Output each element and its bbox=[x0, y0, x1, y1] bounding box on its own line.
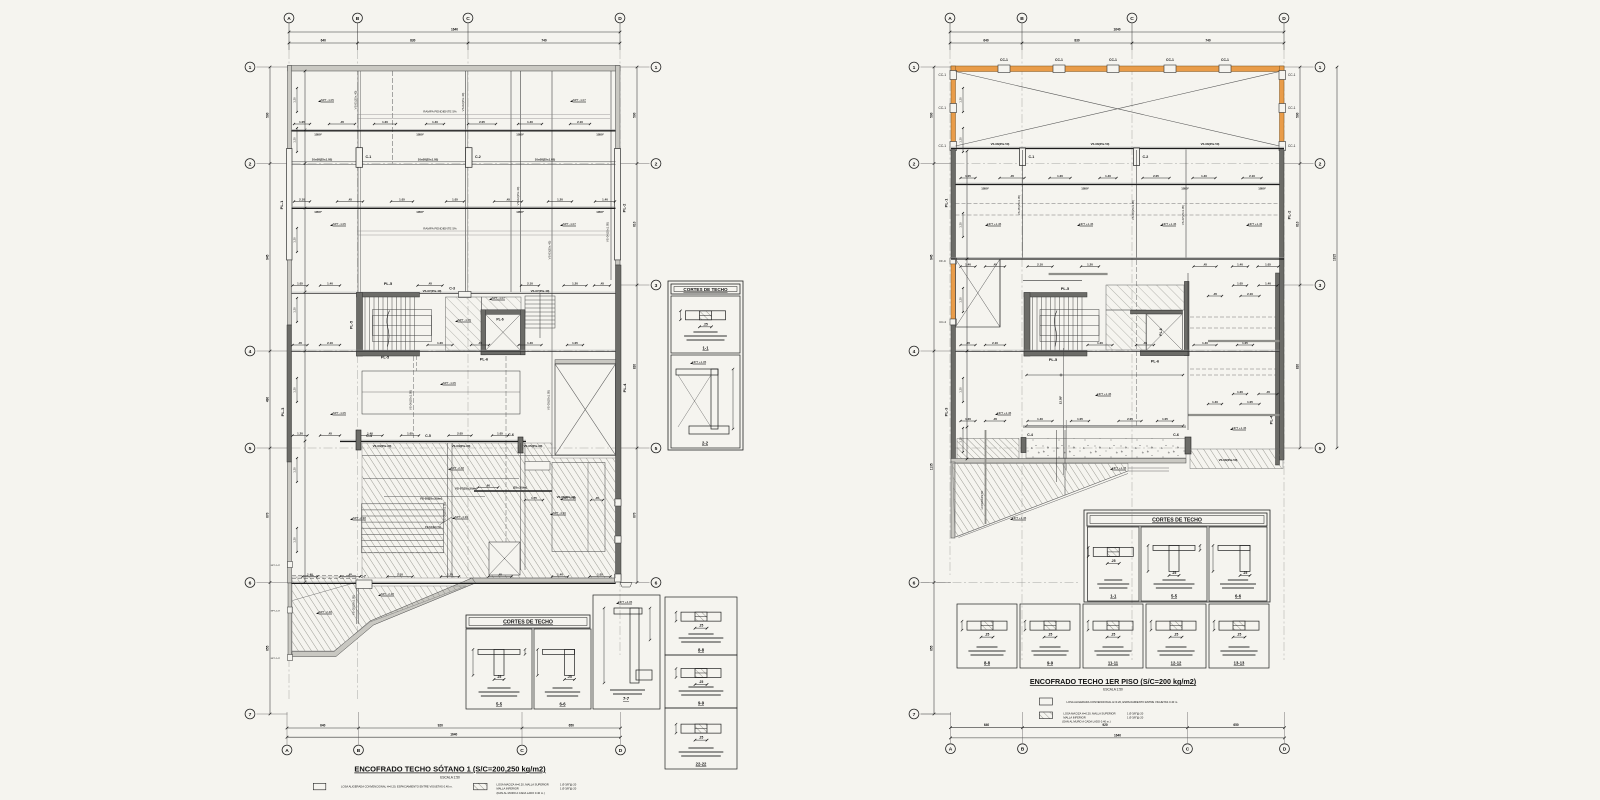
svg-text:.25: .25 bbox=[1172, 571, 1177, 575]
dim cluster row A bbox=[374, 123, 396, 125]
svg-text:PL-5: PL-5 bbox=[1061, 287, 1069, 291]
svg-text:1050*: 1050* bbox=[596, 133, 604, 137]
detail box 9-9 (right) bbox=[1020, 604, 1080, 668]
svg-text:1.20: 1.20 bbox=[959, 437, 963, 443]
svg-text:2.10: 2.10 bbox=[1247, 292, 1253, 296]
hatch verticals bbox=[447, 443, 449, 578]
svg-text:.25: .25 bbox=[699, 680, 704, 684]
svg-text:6: 6 bbox=[249, 580, 252, 586]
svg-text:PL-4: PL-4 bbox=[1269, 415, 1274, 424]
grid circle B (right plan) bbox=[1017, 13, 1027, 23]
dim cluster row A bbox=[294, 123, 310, 125]
svg-text:NPT +1.45: NPT +1.45 bbox=[997, 411, 1011, 415]
white box on hatch bbox=[525, 462, 550, 471]
svg-text:.25: .25 bbox=[703, 322, 708, 326]
dim cluster row3 bbox=[320, 285, 340, 287]
bottom stems (right plan) bbox=[950, 712, 952, 743]
interior beam vertical bbox=[610, 71, 612, 280]
elevator shaft gray top bbox=[555, 360, 616, 364]
NPT level mark bbox=[330, 413, 333, 415]
svg-text:PL-5: PL-5 bbox=[1049, 358, 1057, 362]
svg-text:C: C bbox=[466, 16, 470, 22]
gray vertical band (right plan) bbox=[985, 430, 987, 524]
segment dim top (left plan) bbox=[289, 42, 620, 44]
dim cluster rowC4 bbox=[492, 435, 508, 437]
svg-text:1.20: 1.20 bbox=[557, 197, 563, 201]
svg-text:CC-1: CC-1 bbox=[939, 144, 947, 148]
svg-text:1.05: 1.05 bbox=[297, 281, 303, 285]
left dim stems bbox=[921, 66, 952, 68]
svg-text:.45: .45 bbox=[348, 572, 352, 576]
right wall PL-2 outline bbox=[615, 149, 621, 261]
svg-text:8-8: 8-8 bbox=[698, 648, 705, 653]
svg-text:5: 5 bbox=[655, 446, 658, 452]
stair PL-5 (right plan) bbox=[1024, 293, 1087, 298]
left interior dim cluster bbox=[296, 228, 298, 252]
dim cluster row427 bbox=[1071, 420, 1089, 422]
right dim chain (left plan) bbox=[636, 67, 638, 583]
svg-text:NPT -1.05: NPT -1.05 bbox=[458, 318, 472, 322]
central dim line lower (right plan) bbox=[1027, 425, 1184, 427]
right section dashes bbox=[1190, 316, 1276, 318]
dim cluster row6 bbox=[388, 576, 413, 578]
left interior dim cluster (right plan) bbox=[962, 88, 964, 112]
dim cluster row6 bbox=[441, 576, 459, 578]
interior vertical pair bbox=[359, 71, 361, 292]
cortes header (right plan) bbox=[1087, 513, 1267, 526]
dim cluster row259 bbox=[985, 266, 1005, 268]
svg-text:1: 1 bbox=[1319, 65, 1322, 71]
svg-text:2: 2 bbox=[1319, 161, 1322, 167]
svg-text:.25: .25 bbox=[1111, 559, 1116, 563]
svg-text:1.40: 1.40 bbox=[527, 120, 533, 124]
central dashed verticals bbox=[416, 356, 418, 371]
svg-text:1.20: 1.20 bbox=[1097, 341, 1103, 345]
svg-text:740: 740 bbox=[1205, 39, 1211, 43]
wall marker w3 bbox=[288, 562, 293, 568]
svg-text:VS-02(25x.40): VS-02(25x.40) bbox=[516, 187, 520, 206]
legend 2 rect (right plan) bbox=[1039, 712, 1052, 719]
row circle 7 left (right plan) bbox=[909, 709, 919, 719]
row circle 6 right (left plan) bbox=[651, 578, 661, 588]
hatch big rect right bbox=[552, 463, 605, 552]
svg-text:NPT-2.47: NPT-2.47 bbox=[271, 611, 281, 613]
dim cluster row3 bbox=[564, 285, 587, 287]
svg-text:B: B bbox=[356, 16, 360, 22]
svg-text:CC-1: CC-1 bbox=[1109, 58, 1117, 62]
left interior dim cluster bbox=[296, 378, 298, 402]
dim cluster row427 bbox=[1157, 420, 1173, 422]
svg-text:CORTES DE TECHO: CORTES DE TECHO bbox=[1152, 518, 1202, 524]
row axis line bbox=[292, 350, 616, 352]
left wall PL-3 dark bbox=[287, 325, 292, 462]
bottom strip right gray bbox=[470, 578, 616, 584]
elevator X box left (right plan) bbox=[956, 259, 1001, 327]
beam line y455 bbox=[362, 455, 616, 457]
svg-text:650: 650 bbox=[1233, 723, 1239, 727]
svg-text:NPT +1.45: NPT +1.45 bbox=[1248, 222, 1262, 226]
row circle 2 left (right plan) bbox=[909, 159, 919, 169]
svg-text:PL-1: PL-1 bbox=[279, 200, 284, 209]
svg-text:2.05: 2.05 bbox=[479, 120, 485, 124]
grid axis line bbox=[1283, 50, 1285, 660]
svg-text:VS-07(25x.50/m): VS-07(25x.50/m) bbox=[455, 487, 477, 491]
svg-text:1915: 1915 bbox=[1333, 254, 1337, 261]
left dim chain (left plan) bbox=[269, 67, 271, 714]
row circle 1 left (right plan) bbox=[909, 62, 919, 72]
left wall stub below row6 bbox=[288, 583, 292, 658]
svg-text:CC-4: CC-4 bbox=[939, 320, 946, 324]
dim cluster row4 bbox=[320, 344, 340, 346]
svg-text:1 Ø 3/8"@.20: 1 Ø 3/8"@.20 bbox=[560, 783, 577, 787]
dim cluster right section bbox=[1241, 295, 1260, 297]
left interior dim cluster bbox=[296, 458, 298, 482]
NPT level mark (right plan) bbox=[1077, 224, 1080, 226]
row axis line bbox=[292, 447, 616, 449]
central rect bbox=[362, 371, 520, 414]
svg-text:1.40: 1.40 bbox=[1037, 417, 1043, 421]
svg-text:.25: .25 bbox=[567, 675, 572, 679]
svg-text:RAMPA PENDIENTE 5%: RAMPA PENDIENTE 5% bbox=[423, 110, 457, 114]
dim cluster row259 bbox=[1232, 266, 1248, 268]
svg-text:D: D bbox=[1282, 16, 1286, 22]
svg-text:1.20: 1.20 bbox=[959, 137, 963, 143]
svg-text:.25: .25 bbox=[497, 675, 502, 679]
grid axis line bbox=[357, 50, 359, 700]
svg-text:A: A bbox=[287, 16, 291, 22]
bottom circle C (right plan) bbox=[1183, 744, 1193, 754]
svg-text:VS-05(25x1.05): VS-05(25x1.05) bbox=[1017, 195, 1021, 215]
dim cluster row184 bbox=[961, 177, 976, 179]
grid circle A (right plan) bbox=[945, 13, 955, 23]
row axis line bbox=[956, 163, 1280, 165]
svg-text:1.20: 1.20 bbox=[1237, 390, 1243, 394]
svg-text:2.05: 2.05 bbox=[1127, 417, 1133, 421]
svg-text:1050*: 1050* bbox=[596, 210, 604, 214]
svg-text:1050*: 1050* bbox=[981, 187, 989, 191]
inner wall dark right (right plan) bbox=[1276, 273, 1280, 465]
svg-text:5: 5 bbox=[249, 446, 252, 452]
svg-text:640: 640 bbox=[984, 723, 990, 727]
left interior dim cluster bbox=[296, 298, 298, 322]
NPT level mark (right plan) bbox=[1110, 468, 1113, 470]
svg-text:.25: .25 bbox=[1174, 633, 1179, 637]
svg-text:1050*: 1050* bbox=[416, 210, 424, 214]
grid circle A (left plan) bbox=[284, 13, 294, 23]
dim cluster row6 bbox=[590, 576, 611, 578]
thick gray beam 2 (right plan) bbox=[1188, 414, 1280, 416]
svg-text:6-6: 6-6 bbox=[1235, 594, 1242, 599]
vertical x552 extension bbox=[551, 296, 553, 458]
row axis line bbox=[292, 163, 616, 165]
left wall lower gray bbox=[288, 462, 292, 583]
column C-7 marker bbox=[356, 580, 372, 589]
big X diagonal 1 bbox=[956, 72, 1280, 147]
grid axis line bbox=[619, 50, 621, 655]
bottom dim overall (left plan) bbox=[287, 736, 621, 738]
NPT level mark bbox=[316, 612, 319, 614]
elevator shaft X box bbox=[555, 364, 616, 455]
cortes box frame (left plan side) bbox=[668, 281, 743, 450]
NPT level mark (right plan) bbox=[995, 413, 998, 415]
row circle 1 right (right plan) bbox=[1315, 62, 1325, 72]
dim cluster right section bbox=[1233, 285, 1247, 287]
svg-text:C-6: C-6 bbox=[508, 433, 514, 437]
svg-text:830: 830 bbox=[1074, 39, 1080, 43]
svg-text:B: B bbox=[1020, 16, 1024, 22]
dashed horizontals rows 2-3 bbox=[956, 202, 1280, 204]
svg-text:.45: .45 bbox=[498, 572, 502, 576]
NPT level mark (right plan) bbox=[1160, 224, 1163, 226]
beam row 259 (right plan) bbox=[951, 257, 1284, 259]
PL-5 thick gray segment (right plan) bbox=[1049, 273, 1108, 275]
svg-text:PL-6: PL-6 bbox=[1151, 360, 1159, 364]
svg-text:2: 2 bbox=[655, 161, 658, 167]
svg-text:655: 655 bbox=[266, 645, 270, 651]
dim cluster rowC4 bbox=[401, 435, 419, 437]
svg-text:RAMPA PENDIENTE 5%: RAMPA PENDIENTE 5% bbox=[423, 227, 457, 231]
svg-text:.45: .45 bbox=[993, 417, 997, 421]
dim cluster row3 bbox=[521, 285, 539, 287]
svg-text:22-22: 22-22 bbox=[696, 762, 707, 767]
bottom circle B (right plan) bbox=[1018, 744, 1028, 754]
svg-text:PL-3: PL-3 bbox=[944, 407, 949, 416]
dim cluster row4r bbox=[985, 344, 1005, 346]
svg-text:VS-07(25x.40): VS-07(25x.40) bbox=[423, 289, 442, 293]
svg-text:920: 920 bbox=[1102, 723, 1108, 727]
detail box 6-6 bbox=[534, 629, 591, 709]
svg-text:VS-05(25x.50/m): VS-05(25x.50/m) bbox=[420, 497, 442, 501]
left interior dim cluster (right plan) bbox=[962, 428, 964, 452]
grid axis line bbox=[467, 50, 469, 578]
right dim stems bbox=[1284, 66, 1314, 68]
svg-text:1.20: 1.20 bbox=[959, 97, 963, 103]
NPT level mark (right plan) bbox=[1010, 518, 1013, 520]
small X box in hatch bbox=[489, 542, 520, 575]
svg-text:1640: 1640 bbox=[450, 733, 457, 737]
row circle 5 left (left plan) bbox=[245, 443, 255, 453]
svg-text:C-6: C-6 bbox=[1173, 433, 1179, 437]
overall dim top (left plan) bbox=[289, 31, 620, 33]
left wall orange segment bbox=[951, 264, 956, 319]
svg-text:NPT +1.05: NPT +1.05 bbox=[692, 360, 706, 364]
svg-text:1.40: 1.40 bbox=[1201, 174, 1207, 178]
svg-text:1.40: 1.40 bbox=[602, 197, 608, 201]
svg-text:A: A bbox=[285, 748, 289, 754]
PL-6 top wall (right plan) bbox=[1131, 310, 1183, 314]
svg-text:ESCALA 1:50: ESCALA 1:50 bbox=[1103, 688, 1123, 692]
svg-text:1-1: 1-1 bbox=[702, 346, 709, 351]
beam row 184 (right plan) bbox=[956, 182, 1280, 184]
dim cluster rowC4 bbox=[449, 435, 472, 437]
svg-text:500: 500 bbox=[930, 112, 934, 118]
bottom dim overall (right plan) bbox=[951, 737, 1285, 739]
beam row B (left plan) bbox=[292, 206, 616, 208]
left wall mid gray bbox=[288, 260, 292, 325]
left dim chain (right plan) bbox=[933, 67, 935, 714]
row4 beam bbox=[292, 349, 616, 351]
dim cluster row B bbox=[337, 201, 363, 203]
svg-text:NPT +1.45: NPT +1.45 bbox=[1232, 426, 1246, 430]
svg-text:H=PARAPETO: H=PARAPETO bbox=[980, 490, 984, 509]
column C-4 marker bbox=[356, 430, 361, 450]
svg-text:(DAN AL MURO A CADA LADO 0.40: (DAN AL MURO A CADA LADO 0.40 m.) bbox=[497, 791, 545, 795]
grid axis line bbox=[949, 50, 951, 575]
svg-text:NPT -1.07: NPT -1.07 bbox=[492, 296, 506, 300]
rampa strip 1 bbox=[357, 114, 610, 116]
svg-text:PL-6: PL-6 bbox=[480, 358, 488, 362]
svg-text:.45: .45 bbox=[966, 341, 970, 345]
dim cluster rowC4 bbox=[320, 435, 340, 437]
grid stem bbox=[949, 23, 951, 50]
cortes header (left plan side) bbox=[671, 284, 740, 294]
svg-text:A: A bbox=[948, 16, 952, 22]
left wall PL-1 outline bbox=[287, 149, 293, 261]
svg-text:920: 920 bbox=[438, 724, 444, 728]
svg-text:500: 500 bbox=[266, 112, 270, 118]
svg-text:VS-08(25x.50): VS-08(25x.50) bbox=[991, 142, 1010, 146]
svg-text:5-5: 5-5 bbox=[1171, 594, 1178, 599]
row axis line bbox=[956, 350, 1280, 352]
svg-text:1.40: 1.40 bbox=[1212, 400, 1218, 404]
svg-text:1050*: 1050* bbox=[516, 133, 524, 137]
svg-text:1.20: 1.20 bbox=[293, 97, 297, 103]
svg-text:C: C bbox=[1130, 16, 1134, 22]
detail box 13-13 (right) bbox=[1209, 604, 1269, 668]
legend 1 rect bbox=[313, 783, 326, 790]
detail box 5-5 bbox=[466, 629, 532, 709]
detail box column 9-9 bbox=[665, 655, 737, 708]
dim cluster row B bbox=[446, 201, 464, 203]
NPT level mark bbox=[455, 320, 458, 322]
svg-text:1.20: 1.20 bbox=[447, 572, 453, 576]
svg-text:ENCOFRADO TECHO SÓTANO 1 (S/C=: ENCOFRADO TECHO SÓTANO 1 (S/C=200,250 kg… bbox=[354, 765, 546, 774]
svg-text:VS-02(25x.40): VS-02(25x.40) bbox=[461, 93, 465, 112]
big X diagonal 2 bbox=[956, 72, 1280, 147]
NPT level mark bbox=[440, 383, 443, 385]
svg-text:1.40: 1.40 bbox=[432, 120, 438, 124]
svg-text:1.75: 1.75 bbox=[531, 496, 537, 500]
svg-text:C-2: C-2 bbox=[1143, 155, 1149, 159]
left wall dark lower (right plan) bbox=[951, 325, 956, 462]
grid axis line bbox=[288, 50, 290, 700]
detail box column 8-8 bbox=[665, 597, 737, 655]
svg-text:CC-1: CC-1 bbox=[1288, 73, 1296, 77]
bottom circle A (right plan) bbox=[946, 744, 956, 754]
svg-text:VS-04(25x1.05): VS-04(25x1.05) bbox=[606, 222, 610, 242]
svg-text:.45: .45 bbox=[1213, 292, 1217, 296]
svg-text:1050*: 1050* bbox=[516, 210, 524, 214]
right dim stems bbox=[621, 66, 650, 68]
dim cluster row6 bbox=[552, 576, 568, 578]
FF-C marker bbox=[950, 258, 957, 264]
svg-text:2.10: 2.10 bbox=[1249, 174, 1255, 178]
dim cluster row427 bbox=[1119, 420, 1142, 422]
top wall (left plan) bbox=[288, 66, 621, 72]
svg-text:820: 820 bbox=[633, 364, 637, 370]
dim cluster row184 bbox=[1100, 177, 1117, 179]
svg-text:1.20: 1.20 bbox=[293, 237, 297, 243]
svg-text:830: 830 bbox=[410, 39, 416, 43]
svg-text:PL-5: PL-5 bbox=[384, 282, 392, 286]
dim cluster row4r bbox=[1088, 344, 1113, 346]
grid stem bbox=[288, 23, 290, 50]
bottom hatch band right (right plan) bbox=[1190, 449, 1283, 469]
ramp treads in hatch bbox=[362, 504, 444, 553]
row circle 7 left (left plan) bbox=[245, 709, 255, 719]
svg-text:6: 6 bbox=[913, 580, 916, 586]
svg-text:.60: .60 bbox=[486, 483, 490, 487]
dim cluster right section bbox=[1259, 285, 1278, 287]
dim cluster row6 bbox=[303, 576, 318, 578]
bottom wall gray (right plan) bbox=[951, 459, 1186, 464]
row6 beam bbox=[292, 581, 616, 583]
polygon internal diagonal bbox=[293, 583, 356, 601]
vertical line x1188 (right plan) bbox=[1187, 273, 1189, 430]
svg-text:1 Ø 3/8"@.20: 1 Ø 3/8"@.20 bbox=[1127, 712, 1144, 716]
dim cluster row4 bbox=[471, 344, 489, 346]
svg-text:13-13: 13-13 bbox=[1234, 661, 1245, 666]
svg-text:LOSA ALIGERADA CONVENCIONAL H=: LOSA ALIGERADA CONVENCIONAL H=0.20, ESPA… bbox=[341, 785, 453, 789]
dim cluster row B bbox=[548, 201, 572, 203]
grid circle C (left plan) bbox=[463, 13, 473, 23]
beam row C4 bbox=[340, 439, 526, 441]
svg-text:PL-4: PL-4 bbox=[622, 383, 627, 392]
grid stem bbox=[1131, 23, 1133, 50]
stair PL-5 (left plan) bbox=[357, 293, 420, 298]
bottom circle D (right plan) bbox=[1280, 744, 1290, 754]
hatch beside stair bbox=[446, 297, 482, 351]
detail box column 22-22 bbox=[665, 708, 737, 769]
svg-text:1.05: 1.05 bbox=[299, 120, 305, 124]
interior beam vertical dashed bbox=[392, 71, 394, 164]
bottom tab bbox=[620, 583, 632, 588]
svg-text:NPT +1.45: NPT +1.45 bbox=[1097, 392, 1111, 396]
svg-text:1.20: 1.20 bbox=[297, 431, 303, 435]
NPT level mark (right plan) bbox=[1246, 224, 1249, 226]
CC-1 marker top bbox=[1107, 65, 1119, 73]
svg-text:490: 490 bbox=[266, 397, 270, 403]
CC-1 marker left wall bbox=[950, 71, 957, 80]
svg-text:CC-1: CC-1 bbox=[1288, 106, 1296, 110]
left interior dim cluster (right plan) bbox=[962, 213, 964, 237]
dim cluster row6 bbox=[340, 576, 360, 578]
svg-text:NPT -1.07: NPT -1.07 bbox=[573, 98, 587, 102]
svg-text:945: 945 bbox=[266, 254, 270, 260]
dim cluster row6 bbox=[489, 576, 512, 578]
svg-text:CORTES DE TECHO: CORTES DE TECHO bbox=[683, 287, 728, 292]
column C-3 marker bbox=[459, 292, 472, 298]
svg-text:NPT -4.30: NPT -4.30 bbox=[455, 515, 469, 519]
interior beam vertical bbox=[357, 71, 359, 292]
svg-text:NPT-2.47: NPT-2.47 bbox=[271, 658, 281, 660]
left interior dim cluster (right plan) bbox=[962, 128, 964, 152]
row circle 1 left (left plan) bbox=[245, 62, 255, 72]
svg-text:1.40: 1.40 bbox=[557, 572, 563, 576]
svg-text:D: D bbox=[1283, 747, 1287, 753]
svg-text:1.20: 1.20 bbox=[293, 387, 297, 393]
svg-text:610: 610 bbox=[633, 221, 637, 227]
svg-text:9-9: 9-9 bbox=[698, 701, 705, 706]
right wall dark bbox=[616, 265, 622, 580]
svg-text:1050*: 1050* bbox=[1181, 187, 1189, 191]
bottom circle D (left plan) bbox=[616, 745, 626, 755]
svg-text:C-4: C-4 bbox=[1027, 433, 1033, 437]
svg-text:1.40: 1.40 bbox=[1105, 174, 1111, 178]
left interior dim cluster bbox=[296, 88, 298, 112]
svg-text:500: 500 bbox=[1296, 112, 1300, 118]
PL-6 bottom wall (right plan) bbox=[1140, 350, 1189, 355]
